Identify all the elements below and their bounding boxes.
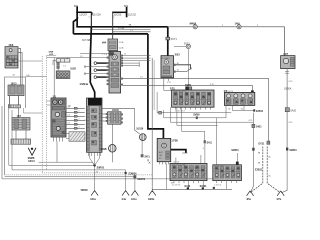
ground G4a — [122, 191, 129, 201]
wire bus stack y165 — [9, 164, 95, 166]
wire pin to bus — [225, 181, 227, 190]
connector strip 19/25 — [56, 59, 70, 62]
wire dashed vertical 1 — [41, 56, 43, 173]
splice S411 lower right — [204, 140, 213, 144]
svg-text:2: 2 — [222, 25, 223, 27]
svg-text:ACC: ACC — [159, 151, 164, 154]
wire module 3/1 down — [56, 142, 58, 163]
wire frame route c — [157, 92, 231, 113]
wire left edge of bottom module — [165, 163, 167, 189]
terminal dot 1 — [190, 67, 191, 68]
svg-text:G31a: G31a — [90, 199, 96, 201]
svg-text:50R00: 50R00 — [81, 189, 89, 192]
wire horizontal y76.6 — [25, 76, 46, 78]
wire relay bottom stub — [110, 51, 112, 53]
wire striped pair a — [251, 147, 263, 193]
svg-text:E0502: E0502 — [256, 110, 264, 113]
module ignition switch 1/73B — [157, 138, 178, 161]
svg-text:30: 30 — [177, 63, 179, 65]
module hatched 10/25 — [56, 71, 70, 79]
connector clockspring hatched — [69, 132, 85, 141]
wire thin terminal row b — [86, 73, 107, 75]
wire frame corner right y113 — [24, 108, 43, 113]
svg-text:1: 1 — [78, 18, 79, 20]
svg-text:1.75: 1.75 — [167, 82, 172, 84]
svg-text:15: 15 — [177, 70, 179, 72]
svg-text:1: 1 — [79, 111, 80, 113]
svg-text:10/25: 10/25 — [70, 69, 76, 71]
splice S2B01 right — [286, 148, 297, 153]
svg-text:2: 2 — [79, 119, 80, 121]
svg-text:0.5: 0.5 — [68, 123, 70, 125]
junction S0401 — [200, 185, 208, 190]
wire bus stack y162 — [39, 162, 95, 165]
wire right rows to frame — [123, 56, 151, 61]
wire row2 — [66, 111, 85, 113]
connector small on route c — [159, 111, 162, 114]
wire dashed vertical 2 — [46, 56, 48, 170]
wire module 4/5 bottom pins — [89, 152, 101, 156]
wire to splice E0502 — [232, 110, 253, 112]
wire bus y178.9 outer — [2, 178, 214, 180]
wire clockspring left a — [66, 133, 69, 135]
connector strip 1 — [9, 105, 21, 108]
svg-text:2: 2 — [89, 17, 90, 19]
wire diag to lamp 10/126 — [134, 130, 140, 134]
wire thin horizontal upper — [91, 29, 150, 31]
svg-text:S6W09: S6W09 — [137, 178, 146, 181]
wire thick stub terminal 2 — [97, 69, 107, 71]
terminal circle 2 — [94, 69, 97, 72]
svg-text:E3W06: E3W06 — [129, 173, 138, 176]
wire frame vertical x8.8 — [8, 104, 10, 165]
svg-text:0.75: 0.75 — [210, 84, 214, 86]
wire to connector M48A — [168, 27, 285, 56]
connector pins below strip — [57, 63, 60, 66]
svg-text:#94: #94 — [102, 41, 107, 44]
svg-text:1.0: 1.0 — [140, 76, 143, 78]
svg-text:10/126: 10/126 — [136, 129, 144, 131]
wire power module out 1 — [176, 65, 191, 67]
wire right short rows — [123, 63, 139, 66]
wire lamp 18/9B down — [111, 152, 113, 162]
wire short y55.4 — [47, 54, 57, 56]
wire module 4/5 to relay 10/100 row1 — [102, 113, 106, 115]
svg-text:11/C07: 11/C07 — [79, 13, 87, 16]
connector SVT1 on thick wire — [166, 37, 178, 41]
svg-text:SB: SB — [258, 152, 261, 154]
wire SVT1 circle down to switch module — [187, 49, 189, 87]
svg-text:4/5a: 4/5a — [246, 198, 251, 201]
svg-text:1 5 3 2 6: 1 5 3 2 6 — [173, 162, 180, 164]
wire switch route b — [177, 107, 218, 125]
wire clockspring left b — [66, 138, 69, 140]
ground GM4a — [148, 191, 156, 202]
svg-text:24: 24 — [228, 109, 231, 111]
lamp 18/9B — [100, 145, 116, 153]
svg-text:11/C03: 11/C03 — [113, 13, 121, 16]
svg-text:GVB4a: GVB4a — [80, 82, 89, 86]
wire thick elbow left — [73, 19, 77, 34]
wire right module top feed 2 — [236, 153, 238, 165]
svg-text:1 3 2 5 4: 1 3 2 5 4 — [214, 185, 221, 187]
svg-text:0.75: 0.75 — [249, 120, 253, 122]
wire thick vertical to ignition switch — [148, 34, 164, 138]
wire pin down b — [18, 96, 20, 105]
svg-text:M48A: M48A — [190, 22, 197, 25]
wire switch bottom pin stubs — [176, 107, 211, 109]
svg-text:11/C06: 11/C06 — [93, 13, 101, 16]
svg-text:0.75: 0.75 — [289, 122, 293, 124]
svg-text:8 6 4 2 1 3 5 7 9: 8 6 4 2 1 3 5 7 9 — [173, 91, 185, 93]
splice E3W06 — [125, 172, 138, 176]
svg-text:2 4 1 6 3 5: 2 4 1 6 3 5 — [172, 185, 180, 187]
lamp 10/126 — [139, 134, 146, 141]
wire thick vertical to power module — [167, 27, 169, 57]
svg-text:3: 3 — [79, 127, 80, 129]
connector x mark a — [147, 159, 149, 161]
wire power module bottom bus — [164, 78, 213, 91]
node module 4/7 top pin — [251, 90, 254, 93]
svg-text:18/9B: 18/9B — [100, 149, 106, 151]
svg-text:S2B01: S2B01 — [231, 149, 239, 152]
wire frame vertical left pair — [151, 58, 153, 192]
fuse 11/C07 supply stub — [76, 7, 78, 13]
wire S2B01 right down — [281, 151, 287, 193]
wire junction down to ground — [94, 165, 96, 191]
svg-text:1.5: 1.5 — [63, 65, 66, 67]
wire motor down — [286, 69, 288, 148]
junction SVB1 — [185, 84, 192, 90]
svg-text:1.5: 1.5 — [130, 30, 133, 32]
wire into bottom left module a — [175, 158, 177, 164]
svg-text:12: 12 — [124, 54, 126, 56]
wire ground bus — [152, 188, 232, 190]
svg-text:GM4a: GM4a — [148, 198, 155, 201]
svg-text:1/73B: 1/73B — [171, 139, 178, 142]
fuse bar 1 — [76, 12, 92, 15]
svg-text:S411: S411 — [145, 155, 151, 158]
fuse bar 2 — [112, 11, 126, 13]
wire 4/7 bottom pins — [232, 105, 244, 110]
svg-text:SB: SB — [258, 162, 261, 164]
connector M48A — [190, 22, 198, 28]
ground G11a — [131, 191, 138, 201]
module 5/23 power relay — [161, 52, 180, 77]
wire switch route e — [182, 107, 205, 140]
wire thick horizontal bus 2 — [73, 33, 147, 35]
wire bus stack y169.9 — [12, 169, 126, 171]
wire pin to S0401 — [202, 181, 204, 190]
svg-text:ER1.5: ER1.5 — [28, 161, 35, 163]
wire fuse 11/C06 output — [90, 13, 92, 27]
wire to relay row3 — [102, 120, 106, 122]
svg-text:5A05: 5A05 — [290, 110, 296, 113]
wire vertical via S421 — [252, 113, 254, 148]
module 4/7 switch right — [224, 89, 255, 105]
junction GV11 — [258, 141, 270, 146]
wire row6 — [66, 127, 85, 129]
wire row4 — [66, 119, 85, 121]
wire thick horizontal bus 1 — [76, 26, 168, 28]
svg-text:0.5: 0.5 — [68, 107, 70, 109]
wire to relay row2 — [102, 117, 106, 119]
wire down to ground G11a — [134, 178, 136, 192]
svg-text:BL: BL — [269, 156, 271, 158]
module 17/5 central electronic — [102, 52, 123, 94]
module combination switch left — [170, 163, 207, 180]
svg-text:SNMB: SNMB — [28, 158, 35, 160]
ground 4/5a — [246, 191, 253, 201]
relay 10/100 — [106, 110, 123, 124]
wire module 3/1 to module 4/5 row1 — [66, 107, 85, 109]
relay 8/94 — [102, 39, 124, 51]
svg-text:2 8 4 6 3: 2 8 4 6 3 — [226, 91, 233, 93]
wire strip stub up — [67, 58, 69, 59]
svg-text:14/9: 14/9 — [235, 22, 240, 25]
svg-text:0.75: 0.75 — [289, 81, 293, 83]
wire thick stub terminal 1 — [97, 62, 107, 64]
terminal tick a — [84, 66, 86, 68]
svg-text:4: 4 — [203, 148, 204, 150]
junction S421 — [252, 124, 262, 128]
module hatched connector upper — [8, 85, 24, 96]
svg-text:G11a: G11a — [131, 199, 137, 201]
wire pin down to box — [57, 69, 59, 71]
module hatched connector lower — [12, 118, 30, 130]
wire S2B01 left down — [250, 151, 253, 193]
wire S411 to lamp module — [204, 143, 206, 163]
svg-text:GV11: GV11 — [258, 143, 265, 146]
svg-text:1 2-B: 1 2-B — [119, 42, 124, 44]
wire dotted bus y172.9 — [42, 172, 125, 174]
wire frame vertical second — [153, 60, 155, 110]
module 3/1 instrument — [51, 95, 66, 137]
fuse 11/C02 supply stub — [126, 7, 128, 17]
svg-text:SVB9: SVB9 — [193, 113, 200, 116]
svg-text:1 7.5: 1 7.5 — [102, 54, 108, 56]
wire vertical x54 — [53, 58, 55, 98]
junction SVB9 — [193, 113, 200, 119]
svg-text:1.2-B: 1.2-B — [119, 48, 124, 50]
wire horizontal y61 — [18, 60, 42, 62]
wire 4/7 bottom pin to SVB9 line — [225, 105, 227, 117]
svg-text:4/7a: 4/7a — [276, 198, 281, 201]
connector SVT1 inline circle — [184, 42, 191, 48]
wire power module out 2 — [176, 69, 191, 72]
splice S2B01 left — [231, 148, 254, 153]
junction S6W09 — [133, 175, 145, 181]
svg-text:1: 1 — [113, 17, 114, 19]
module 15/8 combox — [5, 47, 18, 68]
wire ignition bottom stubs — [160, 162, 169, 165]
connector x mark b — [149, 162, 151, 164]
ground 4/7a — [276, 191, 284, 201]
wire into bottom left module b — [200, 155, 202, 163]
svg-text:1 2 3 4 5 6 7: 1 2 3 4 5 6 7 — [175, 111, 185, 113]
svg-text:31: 31 — [96, 171, 98, 173]
node dark pin right module — [236, 162, 239, 165]
terminal dot 2 — [190, 68, 191, 69]
wire strip to box — [18, 108, 20, 118]
svg-text:31/5 SB: 31/5 SB — [82, 40, 91, 42]
svg-text:20: 20 — [13, 74, 15, 76]
junction small right — [213, 187, 215, 189]
wire from 15/8 pin b — [18, 53, 22, 85]
wire right module top feeds — [216, 118, 218, 165]
junction G100 — [184, 185, 191, 190]
wire bracket tick — [182, 152, 187, 154]
svg-text:5/23: 5/23 — [175, 52, 181, 56]
wire row5 — [66, 123, 85, 125]
wire striped pair b — [267, 147, 280, 193]
svg-text:0.5: 0.5 — [68, 115, 70, 117]
wire module 4/5 right to lamp feed — [102, 108, 134, 130]
wire long horizontal y57.6 — [47, 57, 107, 59]
wire to module 4/7 — [123, 86, 252, 91]
connector M49 — [235, 22, 241, 28]
wire thick ignition output — [171, 150, 186, 153]
svg-text:10/50A: 10/50A — [284, 87, 292, 90]
wire thick stub terminal 3 — [97, 76, 107, 78]
wire from 15/8 pin a — [18, 49, 21, 85]
wire relay to lamp 18/9B — [111, 124, 113, 144]
wire dotted bus y174.9 — [5, 174, 153, 176]
wire frame vertical x2 — [1, 106, 3, 179]
svg-text:11/C02: 11/C02 — [128, 13, 136, 16]
module combination switch right — [213, 165, 242, 181]
terminal circle 1 — [94, 62, 97, 65]
wire right module bottom stubs — [216, 181, 236, 183]
wire lamp to splice S411 — [141, 141, 143, 155]
svg-text:2 4 1 3 6 5 8: 2 4 1 3 6 5 8 — [214, 166, 223, 168]
splice E0502 — [253, 109, 263, 113]
node frame left component box — [5, 77, 26, 175]
wire pin down a — [8, 96, 10, 105]
ground arrow harness SNMB — [28, 148, 36, 163]
wire top pin horizontal y53.6 — [80, 53, 109, 55]
svg-text:E2B11: E2B11 — [255, 169, 263, 172]
ground G31a — [90, 191, 98, 201]
wire down to ground G4a — [125, 170, 127, 192]
wire box pins down — [16, 130, 26, 139]
terminal tick b — [84, 73, 86, 75]
connector 5A05 — [285, 108, 296, 113]
motor 14/7 — [281, 53, 295, 69]
wire long to GV11 — [123, 79, 269, 141]
svg-text:LVD: LVD — [49, 54, 54, 56]
wire junction diagonals — [90, 152, 100, 165]
connector pins between 3/1 and 4/5 — [74, 107, 77, 129]
svg-text:BL: BL — [269, 175, 271, 177]
wire row3 — [66, 115, 85, 117]
wire module 3/1 bottom pins — [54, 137, 63, 142]
wire switch route a — [170, 107, 253, 122]
wire thick vertical from fuse 1 — [76, 12, 78, 26]
svg-text:S411: S411 — [207, 141, 213, 144]
svg-text:4/9: 4/9 — [171, 182, 174, 184]
svg-text:S0R03: S0R03 — [97, 166, 105, 169]
wire fuse 11/C03 output — [112, 13, 114, 39]
wire power to SVT1 circle — [174, 45, 186, 47]
wire thin horizontal lower — [113, 31, 151, 33]
wire strip left — [53, 60, 56, 65]
svg-text:S421: S421 — [256, 126, 262, 129]
wire bottom module left pins — [174, 181, 199, 184]
junction S0R03 — [93, 164, 104, 169]
wire frame route d — [164, 110, 226, 118]
wire thin terminal row a — [86, 66, 107, 68]
wire power module stub 2 — [167, 78, 169, 81]
module 2/75 switch left — [170, 86, 214, 107]
wire frame vertical x12 — [11, 110, 13, 170]
splice S411 upper — [141, 154, 151, 158]
svg-text:G4a: G4a — [122, 198, 127, 201]
module 4/5 column — [87, 98, 103, 152]
svg-text:2.5 SB: 2.5 SB — [118, 28, 125, 30]
svg-text:S2B01: S2B01 — [289, 149, 297, 152]
svg-text:SVT1: SVT1 — [171, 38, 178, 41]
wire tick marks — [285, 72, 289, 74]
connector strip 2 — [11, 139, 31, 144]
terminal circle 3 — [94, 76, 97, 79]
wire thick vertical SB to module 4/5 — [90, 27, 94, 98]
wire pin to G100 — [188, 181, 190, 190]
wire bus y176.6 — [5, 176, 135, 178]
svg-text:0.5: 0.5 — [84, 120, 87, 122]
svg-text:4 2 6 1 3 5 2 4 6 8: 4 2 6 1 3 5 2 4 6 8 — [172, 164, 186, 166]
wire end ticks — [138, 62, 140, 68]
wire module 3/1 left stubs — [47, 101, 51, 105]
